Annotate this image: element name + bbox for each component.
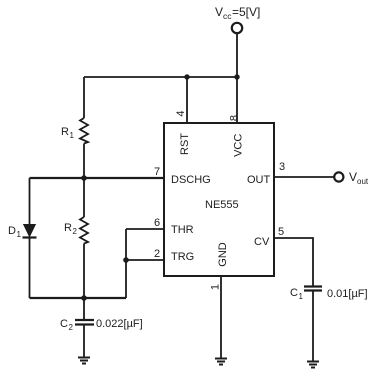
ground (pin 1) <box>215 359 227 365</box>
svg-text:THR: THR <box>171 224 194 236</box>
svg-text:1: 1 <box>299 292 304 301</box>
node junction top rail / pin4 <box>184 74 189 79</box>
resistor R1 <box>80 118 88 144</box>
svg-text:OUT: OUT <box>247 174 271 186</box>
svg-text:5: 5 <box>278 226 284 238</box>
svg-text:=5[V]: =5[V] <box>232 5 260 19</box>
svg-text:2: 2 <box>69 323 74 332</box>
svg-text:C: C <box>60 318 68 330</box>
node junction R1/R2/pin7 <box>81 175 87 181</box>
diode D1 <box>24 225 36 237</box>
wire: bottom-left rail <box>30 297 127 299</box>
op IC NE555 U1 <box>164 123 274 276</box>
svg-text:7: 7 <box>154 166 160 178</box>
node junction top rail / pin8 <box>234 74 239 79</box>
ground (C2) <box>78 358 90 364</box>
terminal Vout (open circle) <box>334 172 343 181</box>
label Vout <box>349 170 369 186</box>
svg-text:cc: cc <box>223 11 232 21</box>
svg-text:C: C <box>290 287 298 299</box>
wire: R2 top lead <box>83 178 85 217</box>
svg-text:1: 1 <box>70 131 75 140</box>
svg-text:2: 2 <box>73 227 78 236</box>
wire: junction down to bottom rail <box>125 260 127 298</box>
svg-text:TRG: TRG <box>171 251 194 263</box>
node junction pin2/pin6 <box>123 257 129 263</box>
svg-text:2: 2 <box>154 248 160 260</box>
wire: pin6-to-pin2 vertical <box>125 229 127 260</box>
capacitor C1 <box>304 285 322 287</box>
svg-text:VCC: VCC <box>233 134 245 157</box>
wire: pin 3 rail (OUT) <box>274 176 334 178</box>
ground (C1) <box>307 362 319 368</box>
svg-text:4: 4 <box>175 110 187 116</box>
wire: R2 bottom lead <box>83 244 85 299</box>
wire: D1 bottom lead <box>29 239 31 299</box>
svg-text:CV: CV <box>254 236 270 248</box>
svg-text:3: 3 <box>279 161 285 173</box>
svg-text:DSCHG: DSCHG <box>171 174 211 186</box>
svg-text:D: D <box>8 225 16 237</box>
svg-text:R: R <box>61 126 69 138</box>
resistor R2 <box>80 217 88 244</box>
wire: C2 bottom lead <box>83 325 85 358</box>
wire: R1 bottom lead <box>83 144 85 179</box>
svg-text:6: 6 <box>154 217 160 229</box>
svg-text:1: 1 <box>17 230 22 239</box>
svg-text:GND: GND <box>217 242 229 267</box>
wire: pin 2 rail (TRG) <box>126 259 164 261</box>
wire: pin 1 (GND) drop <box>220 276 222 358</box>
wire: R1 top lead <box>83 77 85 118</box>
wire: D1 top lead <box>29 178 31 225</box>
capacitor C2 <box>75 319 94 321</box>
wire: C1 bottom lead <box>312 291 314 362</box>
wire: C2 top lead <box>83 298 85 320</box>
wire: pin 4 drop <box>186 77 188 123</box>
node junction bottom rail / C2 <box>81 295 87 301</box>
svg-text:NE555: NE555 <box>205 199 239 211</box>
label Vcc=5[V] <box>215 5 260 21</box>
wire: pin 6 rail (THR) <box>126 228 164 230</box>
svg-text:8: 8 <box>229 115 241 121</box>
wire: pin 5 rail (CV) <box>274 238 313 286</box>
svg-text:V: V <box>215 5 223 19</box>
wire: top rail <box>84 76 237 78</box>
terminal Vcc (open circle) <box>232 23 242 33</box>
svg-text:R: R <box>64 222 72 234</box>
svg-text:1: 1 <box>210 284 222 290</box>
wire: pin 7 rail (DSCHG) <box>30 177 165 179</box>
svg-text:V: V <box>349 170 357 184</box>
svg-text:out: out <box>357 177 369 186</box>
wire: Vcc terminal drop to top rail and pin 8 <box>236 34 238 124</box>
svg-text:0.01[µF]: 0.01[µF] <box>327 288 368 300</box>
svg-text:0.022[µF]: 0.022[µF] <box>96 318 143 330</box>
svg-text:RST: RST <box>179 133 191 155</box>
